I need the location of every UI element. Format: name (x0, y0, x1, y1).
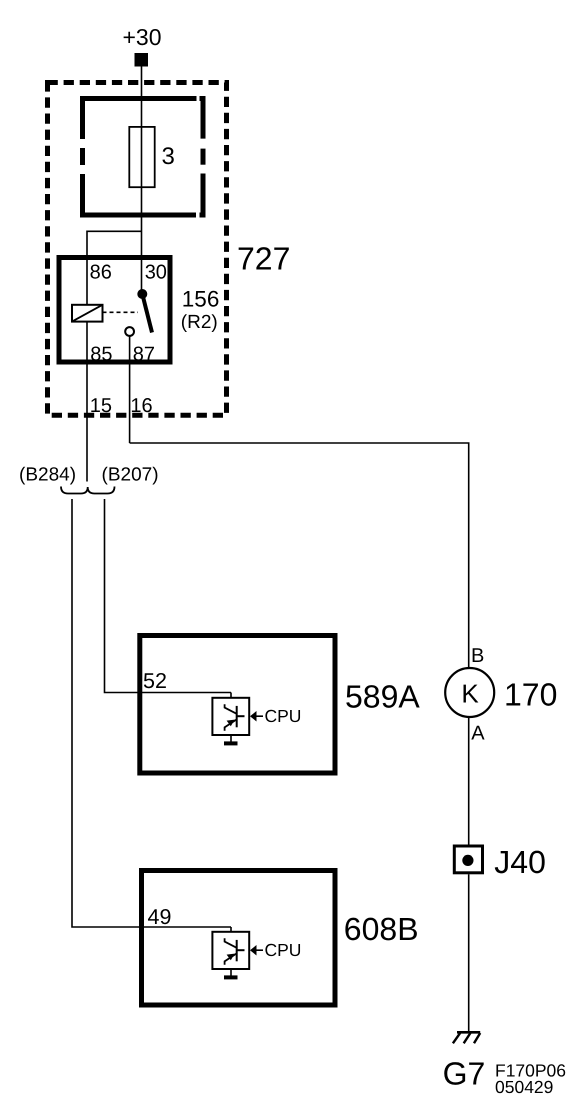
splice brace (61, 487, 115, 494)
transistor base lead (237, 715, 245, 717)
svg-text:050429: 050429 (495, 1077, 553, 1097)
svg-text:156: 156 (182, 286, 220, 311)
wire from +30 through fuse to relay pin 30 (141, 67, 143, 295)
fuse box right border (201, 96, 206, 139)
coil-switch dashed link (103, 311, 139, 313)
CPU input box 608B (212, 932, 249, 969)
svg-text:K: K (461, 679, 479, 709)
switch pivot dot (pin 30) (137, 289, 147, 299)
svg-text:+30: +30 (123, 24, 162, 50)
wire to 608B pin 49 (72, 499, 231, 927)
transistor collector 608B (225, 938, 237, 948)
ground bar 608B (224, 975, 238, 979)
transistor base bar 608B (236, 940, 238, 961)
relay box 156 (59, 258, 170, 363)
junction J40 box (454, 846, 482, 873)
svg-text:727: 727 (237, 241, 290, 277)
ground tine 2 (464, 1033, 471, 1043)
svg-text:170: 170 (504, 677, 557, 713)
CPU arrow 589A (250, 711, 257, 722)
ground stub 608B (230, 969, 232, 976)
junction J40 dot (462, 855, 473, 866)
emitter arrowhead (227, 720, 235, 727)
ECU box 589A (140, 636, 335, 774)
svg-text:15: 15 (90, 395, 112, 417)
svg-text:G7: G7 (443, 1056, 486, 1092)
svg-text:30: 30 (145, 262, 167, 284)
transistor base lead 608B (237, 949, 245, 951)
fuse box left border (80, 96, 85, 139)
stub into CPU input 608B (230, 927, 232, 932)
CPU input box 589A (212, 698, 249, 735)
svg-text:3: 3 (162, 143, 175, 170)
fuse box (long-dash border) top (80, 96, 206, 218)
wire to 589A pin 52 (105, 499, 232, 693)
svg-text:86: 86 (90, 262, 112, 284)
ground bar 589A (224, 741, 238, 745)
svg-text:52: 52 (143, 669, 167, 693)
stub into CPU input 589A (230, 693, 232, 699)
relay coil (72, 305, 103, 322)
transistor emitter (225, 719, 237, 730)
svg-text:B: B (471, 645, 484, 667)
transistor emitter 608B (225, 953, 237, 964)
svg-text:85: 85 (90, 344, 112, 366)
svg-text:(B284): (B284) (19, 465, 76, 486)
ground symbol G7 bar (457, 1031, 480, 1034)
svg-text:49: 49 (148, 905, 172, 929)
emitter arrowhead 608B (227, 954, 235, 961)
svg-text:87: 87 (133, 344, 155, 366)
ground stub 589A (230, 735, 232, 742)
+30 terminal square (135, 53, 149, 67)
transistor collector (225, 704, 237, 714)
svg-text:CPU: CPU (265, 940, 302, 960)
fuse element F3 (129, 127, 154, 187)
fuse box bottom border (80, 213, 196, 218)
svg-text:16: 16 (130, 395, 152, 417)
wire 15 from coil to splice (86, 322, 88, 482)
wire 16 across to component 170 (130, 443, 469, 668)
svg-text:A: A (471, 723, 485, 745)
svg-text:J40: J40 (494, 844, 546, 880)
ground tine 1 (453, 1033, 460, 1043)
dashed enclosure box 727 (48, 83, 227, 416)
wire J40 to ground (468, 874, 470, 1031)
svg-text:608B: 608B (344, 911, 419, 947)
lamp component 170 circle (445, 668, 494, 717)
ECU box 608B (142, 871, 336, 1006)
svg-text:(R2): (R2) (181, 312, 218, 333)
svg-text:589A: 589A (345, 679, 420, 715)
svg-text:(B207): (B207) (102, 465, 159, 486)
switch contact circle (pin 87) (125, 327, 134, 336)
ground tine 3 (474, 1033, 480, 1043)
wire branch junction to relay pin 86 (87, 231, 142, 304)
wire 16 from contact 87 down (129, 336, 131, 444)
switch blade (142, 294, 152, 333)
wire 170 to J40 (468, 717, 470, 845)
svg-text:CPU: CPU (265, 706, 302, 726)
CPU arrow 608B (250, 945, 257, 956)
transistor base bar (236, 706, 238, 727)
